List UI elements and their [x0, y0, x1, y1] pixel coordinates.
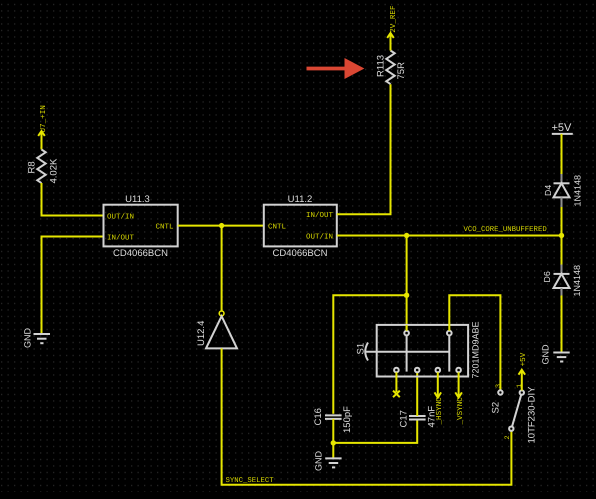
- resistor R113: [376, 51, 408, 85]
- svg-text:IN/OUT: IN/OUT: [107, 233, 135, 242]
- power +5V symbol: [552, 122, 573, 134]
- node junction: [331, 440, 336, 445]
- svg-text:U11.3: U11.3: [125, 194, 150, 205]
- net label _VSYNC: [455, 392, 465, 425]
- svg-text:3: 3: [495, 384, 503, 388]
- resistor R8: [27, 150, 60, 184]
- switch S2: [491, 384, 538, 444]
- svg-text:R8: R8: [27, 161, 38, 173]
- node junction: [404, 233, 409, 238]
- net label _HSYNC: [435, 392, 445, 425]
- wire: [42, 183, 104, 216]
- wire SYNC_SELECT run: [222, 348, 512, 484]
- ground: [314, 451, 342, 472]
- svg-text:SYNC_SELECT: SYNC_SELECT: [226, 477, 275, 485]
- diode D4: [543, 174, 583, 207]
- svg-text:OUT/IN: OUT/IN: [107, 212, 134, 221]
- svg-text:U11.2: U11.2: [288, 194, 313, 205]
- svg-text:D4: D4: [543, 185, 553, 196]
- svg-text:GND: GND: [314, 451, 324, 472]
- svg-text:VCO_CORE_UNBUFFERED: VCO_CORE_UNBUFFERED: [464, 226, 548, 234]
- node junction: [219, 223, 224, 228]
- svg-text:C16: C16: [313, 408, 324, 425]
- svg-text:D6: D6: [542, 271, 552, 282]
- wire: [390, 33, 392, 50]
- svg-text:CNTL: CNTL: [155, 222, 174, 231]
- wire stub S1 pin: [395, 372, 397, 392]
- wire: [406, 325, 408, 331]
- svg-text:C17: C17: [399, 410, 410, 427]
- wire: [333, 420, 417, 443]
- diode D6: [542, 265, 582, 297]
- wire: [332, 419, 334, 458]
- net label 2V_REF: [387, 5, 398, 38]
- svg-text:75R: 75R: [396, 62, 407, 80]
- wire: [406, 236, 408, 331]
- wire to _HSYNC: [437, 372, 439, 397]
- ground: [23, 328, 51, 349]
- wire: [221, 226, 223, 311]
- red annotation arrow: [307, 58, 365, 79]
- switch S1: [356, 321, 481, 378]
- svg-text:S1: S1: [356, 343, 367, 355]
- wire: [42, 237, 104, 334]
- wire: [449, 295, 500, 390]
- wire: [337, 84, 391, 214]
- wire VCO_CORE_UNBUFFERED: [337, 235, 562, 237]
- svg-text:CNTL: CNTL: [268, 222, 287, 231]
- node junction: [559, 233, 564, 238]
- wire: [561, 134, 563, 175]
- svg-text:CD4066BCN: CD4066BCN: [113, 248, 168, 259]
- capacitor C17: [399, 406, 438, 428]
- node junction: [404, 293, 409, 298]
- svg-text:R113: R113: [376, 55, 387, 77]
- IC U11.2 CD4066BCN analog switch: [264, 194, 337, 259]
- svg-text:GND: GND: [23, 328, 33, 349]
- svg-text:+5V: +5V: [520, 352, 528, 366]
- svg-text:+5V: +5V: [552, 122, 573, 134]
- inverter U12.4: [196, 311, 237, 348]
- net label +5V at S2: [519, 352, 529, 374]
- wire: [41, 131, 43, 149]
- svg-text:4.02K: 4.02K: [49, 158, 60, 183]
- svg-text:_VSYNC: _VSYNC: [456, 397, 465, 426]
- wire: [521, 370, 523, 391]
- svg-text:GND: GND: [541, 344, 551, 365]
- wire to _VSYNC: [458, 372, 460, 397]
- svg-text:10TF230-DIY: 10TF230-DIY: [527, 386, 538, 444]
- svg-text:IN/OUT: IN/OUT: [306, 211, 334, 220]
- svg-text:OUT/IN: OUT/IN: [306, 232, 333, 241]
- svg-text:2: 2: [504, 435, 512, 439]
- net label U7_+IN: [38, 105, 48, 136]
- wire: [333, 295, 406, 414]
- wire: [561, 296, 563, 353]
- svg-text:S2: S2: [491, 402, 502, 414]
- svg-text:1N4148: 1N4148: [573, 175, 583, 207]
- wire: [416, 372, 418, 416]
- capacitor C16: [313, 406, 353, 433]
- svg-text:150pF: 150pF: [342, 406, 353, 433]
- svg-text:1N4148: 1N4148: [572, 265, 582, 297]
- svg-text:2V_REF: 2V_REF: [389, 5, 398, 33]
- ground: [541, 344, 570, 365]
- svg-text:U12.4: U12.4: [196, 321, 207, 346]
- wire: [561, 207, 563, 266]
- svg-text:7201MD9ABE: 7201MD9ABE: [471, 321, 481, 378]
- wire CNTL net: [178, 225, 264, 227]
- IC U11.3 CD4066BCN analog switch: [104, 194, 178, 259]
- no-connect X: [393, 391, 400, 398]
- svg-text:U7_+IN: U7_+IN: [40, 105, 48, 132]
- svg-text:_HSYNC: _HSYNC: [435, 397, 444, 426]
- svg-text:CD4066BCN: CD4066BCN: [273, 248, 328, 259]
